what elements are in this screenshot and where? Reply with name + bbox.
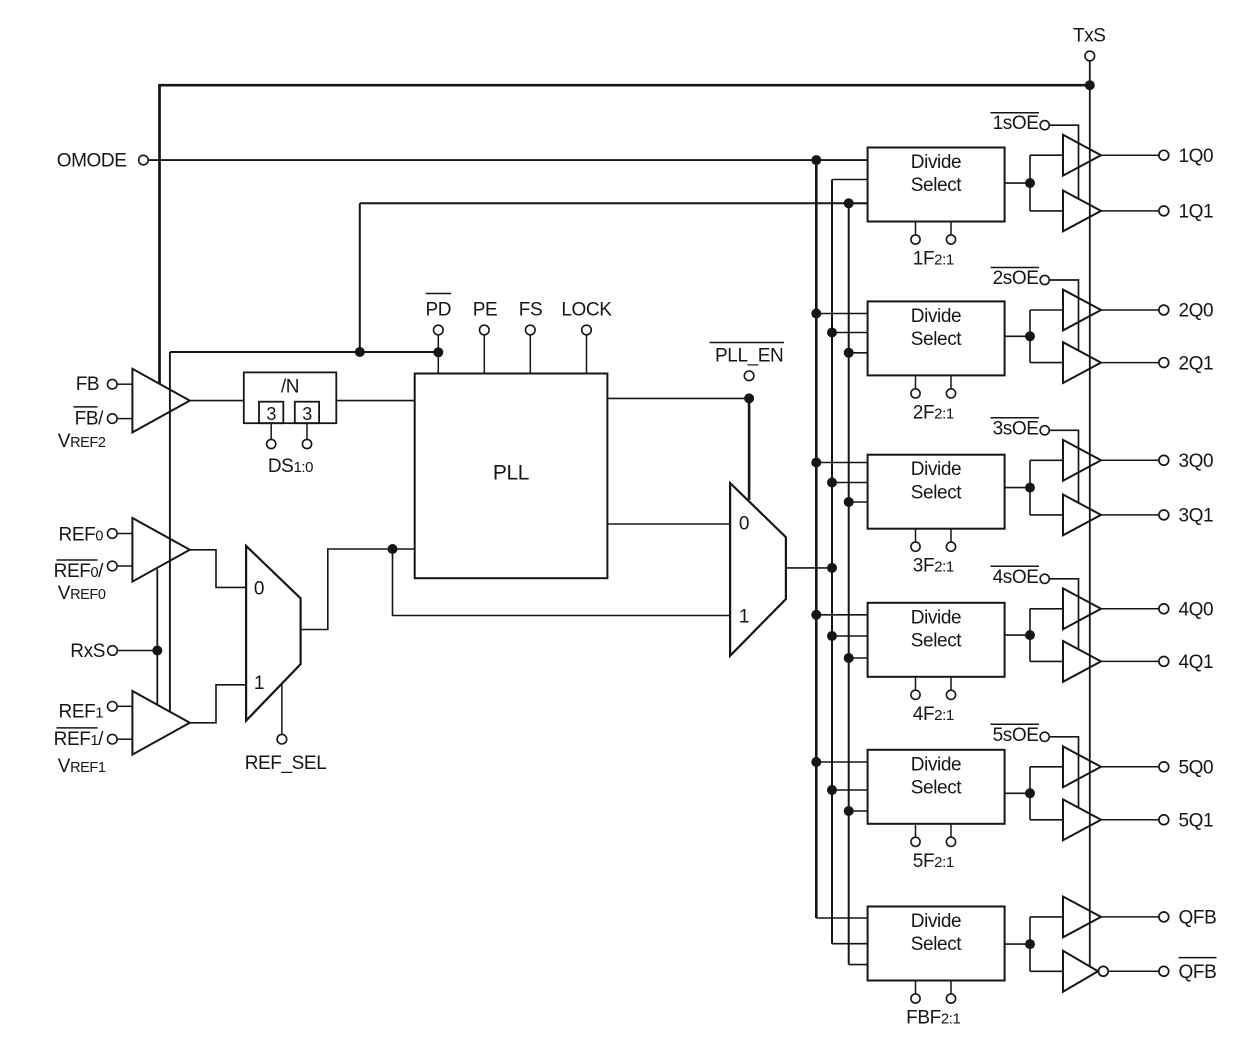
svg-text:FB/: FB/ — [75, 409, 104, 430]
node REF1b/VREF1 label — [57, 727, 98, 729]
wire block 1 output to buffers — [1029, 155, 1031, 211]
wire mux U2 output to clock bus — [786, 567, 832, 569]
svg-text:2Q1: 2Q1 — [1179, 353, 1214, 374]
svg-text:Divide: Divide — [911, 754, 961, 775]
wire PLL_EN select to mux U2 — [748, 398, 751, 500]
register box 3 (DS0) — [295, 402, 319, 424]
pin 1sOE — [1040, 121, 1049, 130]
svg-text:REF0: REF0 — [59, 525, 104, 546]
wire block 5 input 1 — [816, 761, 867, 763]
svg-text:REF1: REF1 — [59, 702, 104, 723]
junction TxS — [1085, 80, 1095, 90]
svg-text:3: 3 — [266, 404, 276, 424]
svg-text:1Q1: 1Q1 — [1179, 202, 1214, 223]
pin 3sOE — [1040, 426, 1049, 435]
svg-text:Select: Select — [911, 175, 963, 196]
wire block 1 input 3 — [849, 202, 868, 204]
svg-text:4Q0: 4Q0 — [1179, 600, 1214, 621]
wire 2Q1 output — [1101, 362, 1159, 364]
junction PLL_EN — [744, 393, 754, 403]
node QFBb label — [1179, 957, 1217, 959]
wire PLL output to PLL_EN junction — [607, 397, 749, 399]
svg-text:Divide: Divide — [911, 152, 961, 173]
buffer U_REF0 — [132, 518, 189, 582]
pin 5Q1 — [1159, 815, 1169, 825]
wire 5Q0 output — [1101, 766, 1159, 768]
pin 3Q0 — [1159, 455, 1169, 465]
pin 2sOE — [1040, 275, 1049, 284]
pin 4F2 (block 4) — [915, 677, 917, 690]
wire PD vertical bus — [848, 203, 850, 964]
wire 3Q0 output — [1101, 459, 1159, 461]
pin 1Q1 — [1159, 206, 1169, 216]
wire PD net horizontal (upper) — [360, 202, 868, 204]
wire block 6 output — [1005, 943, 1030, 945]
wire block 3 output to buffers — [1029, 460, 1031, 515]
junction clock bus — [827, 563, 837, 573]
svg-text:PLL_EN: PLL_EN — [715, 346, 783, 367]
wire block 6 input 2 — [832, 943, 868, 945]
svg-text:REF1/: REF1/ — [54, 729, 104, 750]
svg-text:3Q0: 3Q0 — [1179, 451, 1214, 472]
svg-text:0: 0 — [739, 514, 749, 535]
wire FB buffer output to /N — [190, 400, 244, 402]
buffer 2Q0 — [1063, 290, 1101, 331]
svg-text:QFB: QFB — [1179, 908, 1217, 929]
wire block 6 input 3 — [849, 964, 868, 966]
pin 2Q1 — [1159, 358, 1169, 368]
wire block 4 input 1 — [816, 614, 867, 616]
wire 5sOE to output buffers — [1049, 737, 1078, 808]
wire clock vertical bus — [831, 180, 833, 944]
wire block 3 input 2 — [832, 482, 868, 484]
wire 1sOE to output buffers — [1049, 125, 1078, 199]
wire block 6 input 1 — [816, 917, 867, 919]
junction reference clock — [388, 544, 398, 554]
svg-text:REF0/: REF0/ — [54, 561, 104, 582]
svg-text:2F2:1: 2F2:1 — [913, 402, 954, 423]
wire block 5 input 3 — [849, 810, 868, 812]
wire block 3 input 1 — [816, 462, 867, 464]
junction PD net — [355, 347, 365, 357]
pin 5F1 (block 5) — [950, 824, 952, 837]
svg-text:Divide: Divide — [911, 911, 961, 932]
pin REF0 — [108, 529, 118, 539]
PLL block — [415, 374, 608, 579]
svg-text:Divide: Divide — [911, 306, 961, 327]
wire RxS — [117, 650, 157, 652]
wire block 6 output to buffers — [1029, 917, 1031, 971]
pin 3F2 (block 3) — [915, 529, 917, 542]
junction block 2 output — [1025, 331, 1035, 341]
wire 5Q1 output — [1101, 819, 1159, 821]
wire block 3 input 3 — [849, 501, 868, 503]
junction RxS — [152, 646, 162, 656]
svg-text:2Q0: 2Q0 — [1179, 301, 1214, 322]
pin QFB — [1159, 912, 1169, 922]
svg-text:Select: Select — [911, 329, 963, 350]
svg-text:Select: Select — [911, 630, 963, 651]
pin REF1 — [108, 702, 118, 712]
wire 1Q1 output — [1101, 210, 1159, 212]
buffer 2Q1 — [1063, 342, 1101, 383]
wire block 2 output to buffers — [1029, 310, 1031, 363]
buffer U_FB (feedback input) — [132, 369, 189, 433]
wire QFBb output — [1108, 970, 1159, 972]
divide select block 3 — [868, 455, 1005, 529]
pin FBF1 (block 6) — [950, 981, 952, 994]
svg-text:Select: Select — [911, 934, 963, 955]
wire block 5 input 2 — [832, 789, 868, 791]
svg-text:5sOE: 5sOE — [993, 725, 1039, 746]
pin 4Q0 — [1159, 604, 1169, 614]
pin 2F1 (block 2) — [950, 375, 952, 388]
wire block 4 output — [1005, 634, 1030, 636]
pin REF1b — [108, 734, 118, 744]
junction PD pin — [433, 347, 443, 357]
svg-text:2sOE: 2sOE — [993, 268, 1039, 289]
svg-text:5Q0: 5Q0 — [1179, 758, 1214, 779]
wire block 1 input 2 — [832, 179, 868, 181]
buffer QFB — [1063, 897, 1101, 938]
register box 3 (DS1) — [259, 402, 283, 424]
node REF0b/VREF0 label — [57, 559, 98, 561]
pin 5F2 (block 5) — [915, 824, 917, 837]
buffer 3Q1 — [1063, 495, 1101, 536]
wire block 4 input 2 — [832, 635, 868, 637]
node FBb/VREF2 label — [73, 406, 97, 408]
divide select block 5 — [868, 750, 1005, 824]
buffer 1Q0 — [1063, 135, 1101, 176]
svg-text:REF_SEL: REF_SEL — [245, 753, 327, 774]
divide select block 2 — [868, 301, 1005, 375]
pin 3F1 (block 3) — [950, 529, 952, 542]
svg-text:PE: PE — [473, 300, 498, 321]
junction block 4 output — [1025, 630, 1035, 640]
buffer 4Q1 — [1063, 641, 1101, 682]
pin DS1 — [270, 423, 272, 439]
pin FBb — [108, 414, 118, 424]
wire block 4 input 3 — [849, 657, 868, 659]
wire PLL output to mux U2 input 0 — [607, 523, 730, 525]
node PLL_EN label — [710, 342, 785, 344]
pin TxS — [1085, 51, 1095, 61]
wire block 1 output — [1005, 182, 1030, 184]
svg-text:1Q0: 1Q0 — [1179, 146, 1214, 167]
wire block 5 output to buffers — [1029, 767, 1031, 820]
wire TxS vertical bus (right) — [1089, 61, 1091, 967]
pin FBF2 (block 6) — [915, 981, 917, 994]
wire block 4 output to buffers — [1029, 609, 1031, 662]
node 5sOE label — [991, 723, 1040, 725]
junction OMODE bus tap — [811, 155, 821, 165]
svg-text:VREF2: VREF2 — [58, 431, 106, 452]
pin QFBb — [1159, 966, 1169, 976]
wire OMODE vertical bus — [815, 160, 818, 918]
svg-text:3F2:1: 3F2:1 — [913, 556, 954, 577]
wire 3sOE to output buffers — [1049, 430, 1078, 503]
svg-text:Select: Select — [911, 777, 963, 798]
pin 1F1 (block 1) — [950, 222, 952, 235]
wire 4Q0 output — [1101, 608, 1159, 610]
node 4sOE label — [991, 565, 1040, 567]
wire /N output to PLL — [336, 400, 414, 402]
wire RxS to REF buffers — [156, 569, 158, 705]
svg-text:4Q1: 4Q1 — [1179, 652, 1214, 673]
wire block 2 input 3 — [849, 352, 868, 354]
wire OMODE to divide-select bus — [148, 159, 867, 161]
svg-text:VREF1: VREF1 — [58, 756, 106, 777]
pin 2F2 (block 2) — [915, 375, 917, 388]
pin 4sOE — [1040, 574, 1049, 583]
junction block 5 output — [1025, 788, 1035, 798]
wire 3Q1 output — [1101, 514, 1159, 516]
junction PD bus tap — [844, 198, 854, 208]
divide select block 6 — [868, 907, 1005, 981]
wire 2Q0 output — [1101, 309, 1159, 311]
svg-text:5Q1: 5Q1 — [1179, 811, 1214, 832]
wire block 2 input 1 — [816, 313, 867, 315]
svg-text:3: 3 — [302, 404, 312, 424]
svg-text:PD: PD — [425, 300, 451, 321]
pin FB — [108, 379, 118, 389]
node 1sOE label — [991, 112, 1040, 114]
wire PD net horizontal (lower) — [170, 351, 438, 353]
wire 1Q0 output — [1101, 154, 1159, 156]
pin OMODE — [139, 155, 149, 165]
pin RxS — [108, 646, 118, 656]
divide select block 1 — [868, 148, 1005, 222]
svg-text:FBF2:1: FBF2:1 — [906, 1008, 960, 1029]
buffer 1Q1 — [1063, 191, 1101, 232]
svg-text:VREF0: VREF0 — [58, 583, 106, 604]
pin 1F2 (block 1) — [915, 222, 917, 235]
node 2sOE label — [991, 267, 1040, 269]
wire REF1 buffer output to mux U1 input 1 — [190, 685, 246, 723]
buffer U_REF1 — [132, 691, 189, 755]
svg-text:FB: FB — [76, 374, 99, 395]
inverter QFBb — [1063, 951, 1098, 992]
pin 4Q1 — [1159, 657, 1169, 667]
buffer 5Q1 — [1063, 799, 1101, 840]
svg-text:LOCK: LOCK — [561, 300, 612, 321]
svg-text:3Q1: 3Q1 — [1179, 506, 1214, 527]
svg-text:0: 0 — [254, 579, 264, 600]
wire 4sOE to output buffers — [1049, 579, 1078, 650]
mux U1 (reference select) — [246, 546, 301, 721]
svg-text:QFB: QFB — [1179, 962, 1217, 983]
buffer 3Q0 — [1063, 440, 1101, 481]
svg-text:1: 1 — [254, 673, 264, 694]
buffer 5Q0 — [1063, 746, 1101, 787]
divide select block 4 — [868, 603, 1005, 677]
svg-text:4F2:1: 4F2:1 — [913, 704, 954, 725]
pin DS0 — [306, 423, 308, 439]
wire block 5 output — [1005, 792, 1030, 794]
buffer 4Q0 — [1063, 588, 1101, 629]
pin REF0b — [108, 561, 118, 571]
wire TxS top run to FB buffer — [160, 85, 1090, 384]
pin PD — [426, 293, 451, 295]
svg-text:PLL: PLL — [493, 462, 529, 485]
pin 4F1 (block 4) — [950, 677, 952, 690]
wire reference clock to mux U2 input 1 — [393, 549, 731, 616]
svg-text:Divide: Divide — [911, 607, 961, 628]
svg-text:/N: /N — [281, 377, 299, 398]
wire block 2 input 2 — [832, 332, 868, 334]
svg-text:4sOE: 4sOE — [993, 567, 1039, 588]
pin REF_SEL — [281, 684, 283, 735]
wire PD net vertical — [359, 203, 361, 352]
svg-text:5F2:1: 5F2:1 — [913, 851, 954, 872]
svg-text:Divide: Divide — [911, 459, 961, 480]
node 3sOE label — [991, 417, 1040, 419]
svg-text:OMODE: OMODE — [57, 151, 127, 172]
svg-text:1: 1 — [739, 606, 749, 627]
divider /N block — [244, 372, 336, 423]
pin 1Q0 — [1159, 150, 1169, 160]
pin 3Q1 — [1159, 510, 1169, 520]
wire 4Q1 output — [1101, 660, 1159, 662]
wire mux U1 output to PLL — [301, 549, 415, 630]
pin 5Q0 — [1159, 762, 1169, 772]
junction block 6 output — [1025, 939, 1035, 949]
svg-text:3sOE: 3sOE — [993, 418, 1039, 439]
svg-text:Select: Select — [911, 482, 963, 503]
svg-text:FS: FS — [519, 300, 542, 321]
pin PLL_EN — [744, 371, 754, 381]
svg-text:TxS: TxS — [1073, 26, 1106, 47]
pin 2Q0 — [1159, 305, 1169, 315]
wire block 2 output — [1005, 335, 1030, 337]
wire QFB output — [1101, 916, 1159, 918]
wire REF0 buffer output to mux U1 input 0 — [190, 550, 246, 588]
mux U2 (PLL bypass) — [730, 483, 786, 656]
svg-text:1sOE: 1sOE — [993, 113, 1039, 134]
junction block 1 output — [1025, 178, 1035, 188]
svg-text:DS1:0: DS1:0 — [268, 456, 313, 477]
wire PD net to input buffers — [169, 352, 171, 712]
wire block 3 output — [1005, 487, 1030, 489]
junction block 3 output — [1025, 483, 1035, 493]
pin 5sOE — [1040, 732, 1049, 741]
wire 2sOE to output buffers — [1049, 280, 1078, 351]
svg-text:1F2:1: 1F2:1 — [913, 249, 954, 270]
svg-text:RxS: RxS — [70, 641, 105, 662]
